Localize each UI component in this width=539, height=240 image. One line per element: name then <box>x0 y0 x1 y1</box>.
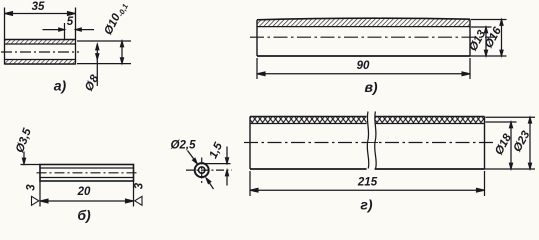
break wavy line right <box>375 112 377 169</box>
tube g right end face <box>484 117 486 170</box>
tube v centerline <box>250 36 494 38</box>
detail O2,5 opposite leader <box>206 178 213 189</box>
detail outer circle <box>195 163 209 177</box>
detail O2,5 leader <box>188 151 198 164</box>
centerline dash across break <box>364 142 378 144</box>
svg-text:б): б) <box>77 207 91 223</box>
dim O13 extension <box>471 26 492 28</box>
svg-text:215: 215 <box>357 177 378 189</box>
svg-text:г): г) <box>360 197 372 213</box>
tube g bottom outline <box>250 168 485 170</box>
svg-text:Ø2,5: Ø2,5 <box>171 140 197 152</box>
detail vertical centerline <box>201 158 203 184</box>
svg-text:35: 35 <box>32 1 45 13</box>
dim 1,5 line <box>226 147 228 164</box>
svg-text:5: 5 <box>67 16 74 28</box>
dim 215 extension lines <box>249 171 251 196</box>
dim O10 line <box>121 41 123 64</box>
shared bottom extension g <box>485 168 536 170</box>
svg-text:20: 20 <box>77 186 91 198</box>
dim 20 extension lines <box>39 181 41 207</box>
tube g top wall cross-hatched strip <box>250 117 485 124</box>
dim 3 right open triangle <box>135 196 142 205</box>
tube a centerline <box>1 51 79 53</box>
svg-text:в): в) <box>364 79 377 95</box>
dim 5 <box>64 23 66 40</box>
dim 3 left open triangle <box>32 196 39 205</box>
dim 90 line <box>257 73 470 75</box>
break gap white-out <box>367 112 375 172</box>
dim O3,5 leader <box>23 152 25 164</box>
dim O16 extension <box>471 19 507 21</box>
detail inner circle <box>199 167 205 173</box>
dim 215 line <box>250 189 485 191</box>
tube v top wall hatched strip <box>257 18 470 26</box>
break wavy line left <box>367 112 369 169</box>
dim O13 line <box>485 27 487 56</box>
tube a top wall hatched strip <box>5 40 76 45</box>
tube v left end face <box>256 20 258 56</box>
dim 20 line <box>40 200 134 202</box>
dim O18 line <box>510 122 512 169</box>
tube a right end face + extension up <box>75 8 77 65</box>
dim 1,5 top extension <box>204 163 231 165</box>
dim O10 extension lines <box>77 40 131 42</box>
svg-text:а): а) <box>54 78 67 94</box>
dim O16 line <box>501 20 503 57</box>
svg-text:3: 3 <box>134 182 146 189</box>
rod b inner line upper <box>40 167 134 169</box>
svg-text:90: 90 <box>357 60 370 72</box>
tube a left end face + 35 extension up <box>4 8 6 65</box>
tube g left end face <box>249 117 251 170</box>
shared bottom extension <box>470 55 507 57</box>
detail horizontal centerline <box>186 169 232 171</box>
rod b inner line lower <box>40 177 134 179</box>
svg-text:3: 3 <box>26 184 38 191</box>
dim 35 line <box>5 13 76 15</box>
dim O8 leader line <box>96 44 98 86</box>
dim O23 line <box>529 117 531 169</box>
rod b outline <box>40 165 134 182</box>
tube v bottom outline <box>257 55 470 57</box>
rod b centerline <box>37 172 138 174</box>
dim O23 extension <box>486 116 536 118</box>
tube a bottom wall hatched strip <box>5 60 76 65</box>
dim O18 extension <box>486 121 517 123</box>
tube g centerline <box>244 142 493 144</box>
dim 90 extension lines <box>256 58 258 79</box>
tube v right end face <box>469 19 471 56</box>
